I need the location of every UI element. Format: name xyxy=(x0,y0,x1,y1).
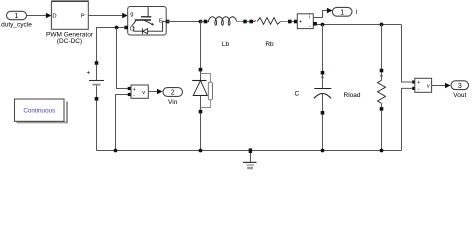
wire Vout- sense lead xyxy=(402,88,413,150)
block Q1 IGBT/Diode xyxy=(124,7,169,36)
svg-text:+: + xyxy=(133,87,136,93)
powergui block Continuous xyxy=(15,99,69,124)
svg-text:I: I xyxy=(356,9,358,16)
diode D1 xyxy=(192,68,212,151)
svg-text:+: + xyxy=(299,19,302,25)
wire down to diode xyxy=(200,22,202,68)
svg-text:D: D xyxy=(52,13,56,19)
wire ground bus bottom xyxy=(97,150,402,152)
wire node SW to Lb xyxy=(201,21,205,23)
svg-text:Rload: Rload xyxy=(344,92,361,99)
inductor Lb xyxy=(204,17,247,48)
svg-text:v: v xyxy=(427,83,430,89)
node junction cap top xyxy=(321,23,325,27)
diode inside IGBT block xyxy=(134,22,166,32)
svg-text:P: P xyxy=(81,13,85,19)
wire Rb to ammeter xyxy=(292,21,296,23)
svg-text:2: 2 xyxy=(171,90,175,97)
wire Vin- sense lead xyxy=(116,95,128,151)
snubber of D1 xyxy=(201,74,211,83)
wire down to Rload xyxy=(381,25,383,69)
node junction cap on bus xyxy=(321,149,325,153)
outport oval Vin (port 2) xyxy=(163,88,183,107)
svg-text:1: 1 xyxy=(15,13,19,20)
wire Vin v to outport 2 xyxy=(148,89,162,95)
capacitor C xyxy=(294,71,331,151)
resistor Rb xyxy=(249,18,291,48)
svg-text:Continuous: Continuous xyxy=(23,107,55,114)
svg-text:duty_cycle: duty_cycle xyxy=(1,21,32,28)
port square C xyxy=(124,26,128,30)
svg-text:Rb: Rb xyxy=(265,41,274,48)
resistor Rload xyxy=(344,69,386,151)
node junction on C wire xyxy=(115,26,119,30)
port square E xyxy=(166,20,170,24)
svg-text:i: i xyxy=(309,14,310,20)
outport oval Vout (port 3) xyxy=(451,81,469,99)
svg-text:1: 1 xyxy=(340,9,344,16)
node junction Vin- on bus xyxy=(114,149,118,153)
node junction diode on bus xyxy=(199,149,203,153)
ammeter U3 current measurement xyxy=(294,14,317,30)
svg-text:Vout: Vout xyxy=(453,92,466,99)
block U1 PWM Generator (DC-DC) xyxy=(46,0,94,45)
wire PWM P to IGBT g xyxy=(88,13,127,19)
svg-text:v: v xyxy=(142,90,145,96)
svg-text:+: + xyxy=(87,70,91,77)
outport oval I (port 1) xyxy=(332,7,357,16)
wire Vin+ sense lead xyxy=(117,28,130,89)
svg-text:Vin: Vin xyxy=(168,99,178,106)
node SW junction xyxy=(199,20,203,24)
inport oval duty_cycle (port 1) xyxy=(1,11,32,28)
svg-text:Lb: Lb xyxy=(222,41,230,48)
wire Vout v to outport 3 xyxy=(432,83,451,89)
voltmeter U4 Vout measurement xyxy=(412,78,431,92)
wire IGBT E to node SW xyxy=(166,21,200,23)
wire ammeter i to outport 1 xyxy=(313,8,332,18)
wire Lb to Rb xyxy=(247,21,250,23)
svg-text:(DC-DC): (DC-DC) xyxy=(57,38,82,45)
ground symbol xyxy=(243,148,257,169)
node junction Rload on bus xyxy=(380,149,384,153)
wire battery+ to IGBT C xyxy=(97,28,125,63)
wire Vout+ sense lead xyxy=(402,25,413,83)
battery B1 DC voltage source xyxy=(87,61,105,150)
svg-text:C: C xyxy=(294,91,299,98)
node junction Rload top xyxy=(380,23,384,27)
svg-text:+: + xyxy=(417,80,420,86)
svg-text:3: 3 xyxy=(458,83,462,90)
wire output bus top xyxy=(317,24,402,26)
voltmeter U2 Vin measurement xyxy=(128,85,149,99)
IGBT icon xyxy=(147,7,149,16)
svg-text:g: g xyxy=(130,12,133,18)
wire down to capacitor xyxy=(322,25,324,72)
wire duty_cycle to PWM D xyxy=(27,13,52,19)
